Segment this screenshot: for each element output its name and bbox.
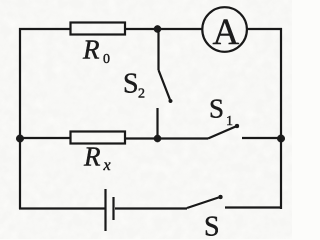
svg-text:A: A xyxy=(213,12,240,53)
label S2 xyxy=(123,68,145,101)
wire: left rail lower xyxy=(19,139,21,210)
wire: top rail left segment xyxy=(19,28,70,30)
wire: top rail middle segment xyxy=(125,28,203,30)
battery cell xyxy=(106,189,114,231)
node: right junction xyxy=(277,135,285,143)
svg-text:S: S xyxy=(123,68,139,99)
label Rx xyxy=(83,142,111,174)
svg-text:S: S xyxy=(209,93,224,123)
svg-text:x: x xyxy=(103,157,111,174)
resistor R0 xyxy=(71,23,126,35)
label S1 xyxy=(209,93,233,129)
node: S2 bottom junction xyxy=(154,135,161,142)
label R0 xyxy=(82,35,110,67)
wire: middle rail right segment xyxy=(242,137,281,139)
wire: right rail upper xyxy=(280,28,282,139)
wire: middle rail segment to S1 xyxy=(125,137,208,139)
wire: left rail upper xyxy=(19,28,21,139)
svg-text:2: 2 xyxy=(138,87,145,102)
wire: battery to switch S xyxy=(115,207,187,209)
wire: bottom rail left segment xyxy=(19,207,105,209)
svg-text:R: R xyxy=(82,35,100,65)
switch S2 xyxy=(158,29,173,139)
svg-text:S: S xyxy=(204,211,220,239)
wire: right rail lower xyxy=(280,139,282,210)
switch S xyxy=(187,195,223,208)
ammeter A xyxy=(202,7,247,53)
node: top junction xyxy=(154,25,161,32)
svg-text:1: 1 xyxy=(226,114,233,129)
wire: middle rail left segment xyxy=(20,137,70,139)
wire: bottom rail right segment xyxy=(225,206,282,208)
svg-text:0: 0 xyxy=(103,52,110,67)
node: left junction xyxy=(16,135,24,143)
switch S1 xyxy=(208,124,239,139)
resistor Rx xyxy=(71,132,126,144)
wire: top rail right segment xyxy=(247,28,282,30)
svg-text:R: R xyxy=(83,142,101,172)
